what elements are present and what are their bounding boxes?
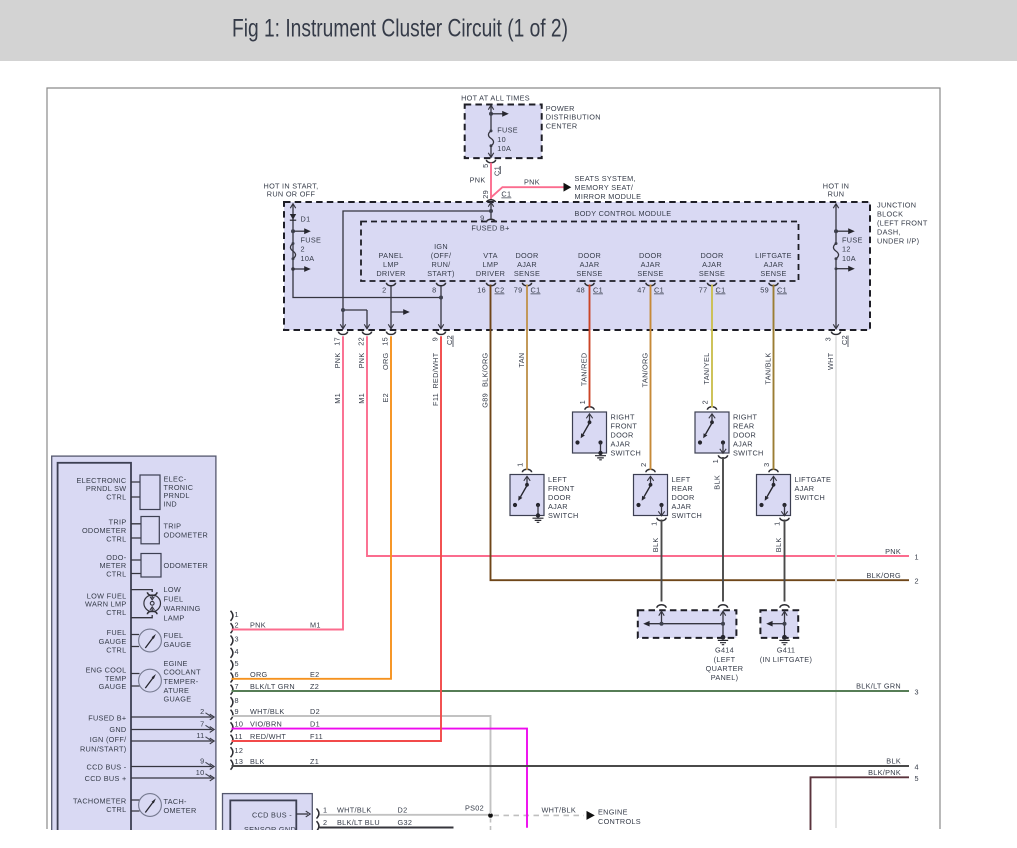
svg-text:TACHOMETER: TACHOMETER <box>73 796 127 805</box>
ccd bus outer box <box>223 794 313 848</box>
svg-text:1: 1 <box>711 459 720 463</box>
svg-text:LEFT: LEFT <box>548 475 567 484</box>
wire TAN : BCM pin79 to left front door switch <box>526 285 528 471</box>
svg-text:FRONT: FRONT <box>548 484 575 493</box>
svg-text:BLK/LT BLU: BLK/LT BLU <box>337 818 380 827</box>
svg-text:PNK: PNK <box>470 175 486 184</box>
left front door ajar switch <box>510 463 579 523</box>
svg-text:FUSE: FUSE <box>842 236 863 245</box>
svg-text:12: 12 <box>842 245 851 254</box>
svg-text:SWITCH: SWITCH <box>795 493 826 502</box>
svg-text:D1: D1 <box>310 720 320 729</box>
header bar <box>0 0 1017 61</box>
svg-text:2: 2 <box>200 707 204 716</box>
ccd bus - pin 9 arrow <box>131 766 213 768</box>
svg-text:LEFT: LEFT <box>672 475 691 484</box>
svg-text:PNK: PNK <box>524 178 540 187</box>
svg-text:TAN: TAN <box>517 353 526 368</box>
svg-text:2: 2 <box>701 400 710 404</box>
svg-text:WHT/BLK: WHT/BLK <box>337 806 372 815</box>
fused B+ pin 2 arrow <box>131 716 213 718</box>
svg-text:BLK: BLK <box>774 538 783 553</box>
svg-text:1: 1 <box>650 522 659 526</box>
wire BLK Z1 : cluster pin 13 to right edge 4 <box>232 765 910 767</box>
svg-text:13: 13 <box>235 757 244 766</box>
svg-text:10: 10 <box>196 768 205 777</box>
svg-text:BLK: BLK <box>651 538 660 553</box>
engine coolant temperature gauge <box>131 674 140 687</box>
svg-text:WHT/BLK: WHT/BLK <box>542 805 577 814</box>
svg-text:AJAR: AJAR <box>702 260 722 269</box>
svg-text:(LEFT: (LEFT <box>714 655 736 664</box>
left rear door ajar switch <box>634 463 703 553</box>
arrow to connector <box>296 813 308 815</box>
branch arrow right <box>491 113 503 115</box>
svg-text:DOOR: DOOR <box>578 251 601 260</box>
svg-text:RUN: RUN <box>828 190 845 199</box>
svg-text:FUEL: FUEL <box>107 628 127 637</box>
svg-text:11: 11 <box>196 731 204 740</box>
svg-text:1: 1 <box>323 806 327 815</box>
wire BLK right rear switch to G414 <box>722 457 724 602</box>
BCM bottom exit cups <box>338 332 347 335</box>
svg-text:12: 12 <box>235 746 244 755</box>
svg-text:AJAR: AJAR <box>795 484 815 493</box>
svg-text:SENSE: SENSE <box>514 269 540 278</box>
arrow up <box>488 105 493 110</box>
svg-text:REAR: REAR <box>672 484 693 493</box>
svg-text:RIGHT: RIGHT <box>733 413 757 422</box>
wire TAN/BLK : BCM pin59 to liftgate switch <box>773 285 775 471</box>
svg-text:IGN: IGN <box>434 242 448 251</box>
svg-text:2: 2 <box>301 245 305 254</box>
svg-text:1: 1 <box>578 400 587 404</box>
junction node <box>291 229 295 233</box>
svg-text:G414: G414 <box>715 646 734 655</box>
PNK wire from PDC to BCM <box>470 163 642 203</box>
svg-text:BODY CONTROL MODULE: BODY CONTROL MODULE <box>575 209 672 218</box>
svg-text:BLK/ORG: BLK/ORG <box>480 352 489 387</box>
svg-text:RIGHT: RIGHT <box>611 413 635 422</box>
svg-text:3: 3 <box>762 463 771 467</box>
svg-text:10A: 10A <box>497 144 511 153</box>
svg-text:FRONT: FRONT <box>611 422 638 431</box>
svg-text:FUEL: FUEL <box>164 631 184 640</box>
arrow to engine controls <box>587 811 595 820</box>
svg-text:CTRL: CTRL <box>106 492 126 501</box>
ground <box>595 456 606 460</box>
svg-text:5: 5 <box>235 659 239 668</box>
svg-text:16: 16 <box>477 286 486 295</box>
dashed continuation wires <box>494 814 585 816</box>
wire BLK/ORG G89 : BCM pin16 to right edge 2 <box>491 285 910 581</box>
svg-text:E2: E2 <box>381 393 390 403</box>
svg-text:BLOCK: BLOCK <box>877 210 903 219</box>
wire below fuse with down arrow <box>490 146 492 157</box>
svg-text:1: 1 <box>773 522 782 526</box>
svg-text:DOOR: DOOR <box>672 493 695 502</box>
svg-text:2: 2 <box>639 463 648 467</box>
svg-text:8: 8 <box>235 696 239 705</box>
right rear door ajar switch <box>695 400 764 490</box>
svg-text:F11: F11 <box>310 732 323 741</box>
connector cup pin 3 at BCM bottom <box>831 332 840 335</box>
svg-text:DASH,: DASH, <box>877 228 901 237</box>
ground G411 box <box>760 605 812 664</box>
svg-text:Z1: Z1 <box>310 757 319 766</box>
pin 8 wire to exit 9 <box>440 285 442 329</box>
svg-text:SWITCH: SWITCH <box>611 449 642 458</box>
trip odometer box <box>131 524 141 538</box>
svg-text:RUN/START): RUN/START) <box>80 744 127 753</box>
svg-text:FUEL: FUEL <box>164 594 184 603</box>
svg-text:D2: D2 <box>310 707 320 716</box>
ccd bus inner box <box>230 800 296 848</box>
svg-text:SEATS SYSTEM,: SEATS SYSTEM, <box>575 174 636 183</box>
svg-text:6: 6 <box>235 670 239 679</box>
svg-text:9: 9 <box>480 214 484 223</box>
diagram border frame <box>47 88 940 829</box>
connector pins 1-13 <box>231 611 233 770</box>
gauge tachometer <box>131 800 140 811</box>
power distribution center box <box>465 105 542 159</box>
wire BLK/LT BLU pin2 <box>320 827 454 829</box>
svg-text:M1: M1 <box>357 393 366 404</box>
svg-text:SWITCH: SWITCH <box>672 511 703 520</box>
svg-text:ODOMETER: ODOMETER <box>164 530 209 539</box>
svg-text:DRIVER: DRIVER <box>476 269 505 278</box>
svg-text:LMP: LMP <box>483 260 499 269</box>
svg-text:10A: 10A <box>842 254 856 263</box>
svg-text:AJAR: AJAR <box>548 502 568 511</box>
wire b+ vertical inside PDC <box>490 107 492 131</box>
svg-text:GND: GND <box>109 725 126 734</box>
svg-text:MIRROR MODULE: MIRROR MODULE <box>575 192 642 201</box>
svg-text:M1: M1 <box>310 621 321 630</box>
svg-text:79: 79 <box>514 286 523 295</box>
svg-text:PNK: PNK <box>333 353 342 369</box>
svg-text:C1: C1 <box>531 286 541 295</box>
svg-text:D2: D2 <box>398 806 408 815</box>
wire TAN/ORG : BCM pin47 to left rear door switch <box>650 285 652 471</box>
svg-text:PANEL): PANEL) <box>711 673 739 682</box>
arrow to seats system <box>564 183 572 192</box>
junction block fuse 12 (right side) <box>835 204 837 329</box>
connector cup at PDC bottom <box>486 160 495 163</box>
svg-text:DOOR: DOOR <box>733 431 756 440</box>
svg-text:47: 47 <box>637 286 646 295</box>
svg-text:SWITCH: SWITCH <box>548 511 579 520</box>
svg-text:G89: G89 <box>480 393 489 408</box>
wire WHT : junction block pin3 down <box>835 336 837 828</box>
svg-text:WARNING: WARNING <box>164 604 201 613</box>
ground symbol <box>721 635 726 640</box>
svg-text:Fig 1: Instrument Cluster Circ: Fig 1: Instrument Cluster Circuit (1 of … <box>232 15 568 43</box>
svg-text:FUSED B+: FUSED B+ <box>88 713 126 722</box>
svg-text:C1: C1 <box>777 286 787 295</box>
svg-text:SENSE: SENSE <box>699 269 725 278</box>
gnd pin 7 arrow <box>131 729 213 731</box>
svg-text:AJAR: AJAR <box>764 260 784 269</box>
svg-text:TAN/ORG: TAN/ORG <box>640 352 649 387</box>
svg-text:UNDER I/P): UNDER I/P) <box>877 237 919 246</box>
svg-text:START): START) <box>427 269 454 278</box>
svg-text:SENSE: SENSE <box>637 269 663 278</box>
svg-text:DISTRIBUTION: DISTRIBUTION <box>546 113 601 122</box>
electronic prndl ind box <box>131 482 140 497</box>
svg-text:JUNCTION: JUNCTION <box>877 201 916 210</box>
svg-text:EGINE: EGINE <box>164 659 188 668</box>
svg-text:10A: 10A <box>301 254 315 263</box>
svg-text:TRIP: TRIP <box>164 522 182 531</box>
instrument cluster control inner box <box>58 463 131 843</box>
odometer box <box>131 560 141 574</box>
svg-text:TAN/YEL: TAN/YEL <box>702 353 711 385</box>
svg-text:1: 1 <box>915 553 919 562</box>
junction node <box>489 112 493 116</box>
svg-text:LOW: LOW <box>164 585 182 594</box>
svg-text:RUN OR OFF: RUN OR OFF <box>267 190 316 199</box>
svg-text:TAN/BLK: TAN/BLK <box>763 353 772 385</box>
svg-text:GAUGE: GAUGE <box>164 640 192 649</box>
svg-text:WHT/BLK: WHT/BLK <box>250 707 285 716</box>
svg-text:C1: C1 <box>501 190 511 199</box>
svg-text:5: 5 <box>915 774 919 783</box>
ground <box>533 518 544 522</box>
svg-text:HOT AT ALL TIMES: HOT AT ALL TIMES <box>461 94 530 103</box>
wire PNK 22 M1 : BCM pin22 to right edge 1 <box>367 336 909 556</box>
svg-text:CTRL: CTRL <box>106 646 126 655</box>
svg-text:BLK/ORG: BLK/ORG <box>866 571 901 580</box>
svg-text:4: 4 <box>915 763 919 772</box>
svg-text:CONTROLS: CONTROLS <box>598 817 641 826</box>
svg-text:10: 10 <box>235 720 244 729</box>
svg-text:QUARTER: QUARTER <box>706 664 744 673</box>
svg-text:4: 4 <box>235 647 239 656</box>
svg-text:(LEFT FRONT: (LEFT FRONT <box>877 219 928 228</box>
svg-text:GUAGE: GUAGE <box>164 695 192 704</box>
svg-text:2: 2 <box>235 621 239 630</box>
liftgate ajar switch <box>757 463 832 553</box>
diode D1 symbol <box>290 214 296 220</box>
svg-text:2: 2 <box>323 818 327 827</box>
svg-text:TACH-: TACH- <box>164 797 188 806</box>
ccd bus + pin 10 arrow <box>131 777 213 779</box>
svg-text:PNK: PNK <box>357 353 366 369</box>
fuse 2 <box>292 242 295 245</box>
svg-text:9: 9 <box>431 337 440 341</box>
body control module box <box>284 202 870 330</box>
svg-text:TAN/RED: TAN/RED <box>579 353 588 387</box>
branch arrow right below fuse <box>291 267 295 271</box>
svg-text:LMP: LMP <box>383 260 399 269</box>
right front door ajar switch <box>573 400 642 460</box>
svg-text:ENGINE: ENGINE <box>598 807 628 816</box>
svg-text:RUN/: RUN/ <box>431 260 451 269</box>
wire TAN/YEL : BCM pin77 to right rear door switch <box>711 285 713 408</box>
svg-text:(IN LIFTGATE): (IN LIFTGATE) <box>760 655 812 664</box>
svg-text:7: 7 <box>235 682 239 691</box>
svg-text:C2: C2 <box>495 286 505 295</box>
svg-text:DOOR: DOOR <box>700 251 723 260</box>
svg-text:10: 10 <box>497 135 506 144</box>
svg-text:BLK: BLK <box>886 757 901 766</box>
svg-text:17: 17 <box>333 337 342 346</box>
svg-text:AJAR: AJAR <box>580 260 600 269</box>
wire RED/WHT F11 : BCM pin9 to cluster pin 11 <box>232 336 442 741</box>
svg-text:22: 22 <box>357 337 366 346</box>
instrument cluster outer box <box>52 456 216 836</box>
svg-text:AJAR: AJAR <box>672 502 692 511</box>
svg-text:1: 1 <box>235 610 239 619</box>
svg-text:11: 11 <box>235 732 243 741</box>
svg-text:5: 5 <box>481 164 490 168</box>
svg-text:BLK: BLK <box>250 757 265 766</box>
svg-text:LAMP: LAMP <box>164 613 185 622</box>
wire WHT/BLK pin1 <box>320 814 491 816</box>
svg-text:ORG: ORG <box>250 670 268 679</box>
wire PNK vertical <box>490 163 492 200</box>
svg-text:1: 1 <box>516 463 525 467</box>
svg-text:DOOR: DOOR <box>548 493 571 502</box>
svg-text:LIFTGATE: LIFTGATE <box>755 251 792 260</box>
svg-text:D1: D1 <box>301 215 311 224</box>
svg-text:SENSE: SENSE <box>576 269 602 278</box>
svg-text:2: 2 <box>382 286 386 295</box>
svg-text:8: 8 <box>432 286 436 295</box>
svg-text:3: 3 <box>915 688 919 697</box>
svg-text:C1: C1 <box>654 286 664 295</box>
svg-text:MEMORY SEAT/: MEMORY SEAT/ <box>575 183 634 192</box>
svg-text:SWITCH: SWITCH <box>733 449 764 458</box>
wire VIO/BRN D1 : cluster pin 10 down <box>232 729 528 828</box>
branch arrow right <box>293 230 305 232</box>
fuse 10 <box>490 129 493 132</box>
svg-text:2: 2 <box>915 577 919 586</box>
svg-text:CTRL: CTRL <box>106 570 126 579</box>
svg-text:GAUGE: GAUGE <box>99 637 127 646</box>
svg-text:BLK/LT GRN: BLK/LT GRN <box>856 682 901 691</box>
svg-text:PNK: PNK <box>250 621 266 630</box>
ign pin 11 arrow <box>131 740 213 742</box>
svg-text:59: 59 <box>760 286 769 295</box>
svg-text:C1: C1 <box>716 286 726 295</box>
wire PNK branch to seats <box>491 187 564 197</box>
svg-text:GAUGE: GAUGE <box>99 682 127 691</box>
wire BLK/PNK : from bottom to right edge 5 <box>811 777 910 830</box>
wire BLK/LT GRN Z2 : cluster pin 7 to right edge 3 <box>232 690 910 692</box>
svg-text:29: 29 <box>481 190 490 199</box>
svg-text:AJAR: AJAR <box>611 440 631 449</box>
inner box pin cups <box>386 283 395 286</box>
svg-text:CENTER: CENTER <box>546 121 578 130</box>
fused B+ inner box <box>361 222 799 282</box>
svg-text:E2: E2 <box>310 670 320 679</box>
svg-text:ORG: ORG <box>381 352 390 370</box>
svg-text:REAR: REAR <box>733 422 754 431</box>
svg-text:WHT: WHT <box>826 352 835 370</box>
svg-text:PS02: PS02 <box>465 803 484 812</box>
svg-text:M1: M1 <box>333 393 342 404</box>
svg-text:COOLANT: COOLANT <box>164 668 202 677</box>
svg-text:IND: IND <box>164 500 177 509</box>
svg-text:C1: C1 <box>593 286 603 295</box>
fuel gauge <box>131 635 139 647</box>
svg-text:FUSE: FUSE <box>497 126 518 135</box>
wire WHT/BLK D2 : cluster pin 9 to splice PS02 <box>232 716 491 814</box>
svg-text:CTRL: CTRL <box>106 534 126 543</box>
svg-text:RED/WHT: RED/WHT <box>250 732 286 741</box>
svg-text:15: 15 <box>381 337 390 346</box>
svg-text:PNK: PNK <box>885 547 901 556</box>
svg-text:CTRL: CTRL <box>106 608 126 617</box>
ccd connector pins <box>317 809 319 832</box>
svg-text:9: 9 <box>200 756 204 765</box>
svg-text:7: 7 <box>200 719 204 728</box>
svg-text:FUSE: FUSE <box>301 236 322 245</box>
svg-text:BLK/PNK: BLK/PNK <box>868 768 901 777</box>
svg-text:48: 48 <box>576 286 585 295</box>
svg-text:AJAR: AJAR <box>733 440 753 449</box>
connector cup at BCM top <box>486 200 495 203</box>
svg-text:DOOR: DOOR <box>639 251 662 260</box>
svg-text:ATURE: ATURE <box>164 686 190 695</box>
svg-text:3: 3 <box>824 337 833 341</box>
svg-text:77: 77 <box>699 286 708 295</box>
svg-text:TEMPER-: TEMPER- <box>164 677 199 686</box>
pin 2 wire to exit 15 <box>391 285 404 329</box>
svg-text:PANEL: PANEL <box>379 251 404 260</box>
internal bus with left arrow <box>648 623 723 625</box>
svg-text:BLK/LT GRN: BLK/LT GRN <box>250 682 295 691</box>
svg-text:G411: G411 <box>777 646 796 655</box>
svg-text:IGN (OFF/: IGN (OFF/ <box>90 735 127 744</box>
svg-text:DRIVER: DRIVER <box>376 269 405 278</box>
svg-text:FUSED B+: FUSED B+ <box>471 224 509 233</box>
svg-text:SENSE: SENSE <box>760 269 786 278</box>
diode D1 branch <box>293 204 441 298</box>
svg-text:CCD BUS -: CCD BUS - <box>87 762 127 771</box>
svg-text:ODOMETER: ODOMETER <box>164 561 209 570</box>
svg-text:CCD BUS +: CCD BUS + <box>85 774 127 783</box>
svg-text:(OFF/: (OFF/ <box>431 251 452 260</box>
wire BLK liftgate switch to G411 <box>784 520 786 602</box>
wire ORG E2 : BCM pin15 to cluster pin 6 <box>232 336 392 679</box>
svg-text:AJAR: AJAR <box>641 260 661 269</box>
svg-text:VIO/BRN: VIO/BRN <box>250 720 282 729</box>
svg-text:AJAR: AJAR <box>517 260 537 269</box>
ground G414 box <box>638 605 744 682</box>
svg-text:Z2: Z2 <box>310 682 319 691</box>
net from pin 29 inside BCM <box>343 203 491 329</box>
svg-text:G32: G32 <box>398 818 413 827</box>
wire TAN/RED : BCM pin48 to right front door switch <box>589 285 591 408</box>
wire BLK left rear switch to G414 <box>661 520 663 602</box>
svg-text:VTA: VTA <box>483 251 498 260</box>
svg-text:F11: F11 <box>431 393 440 406</box>
svg-text:DOOR: DOOR <box>611 431 634 440</box>
low fuel warning lamp <box>131 590 152 618</box>
svg-text:RED/WHT: RED/WHT <box>431 352 440 388</box>
svg-text:OMETER: OMETER <box>164 806 197 815</box>
svg-text:CCD BUS -: CCD BUS - <box>252 811 292 820</box>
svg-text:POWER: POWER <box>546 104 575 113</box>
wire PNK 17 M1 : BCM pin17 to cluster pin 2 <box>232 336 344 629</box>
svg-text:LIFTGATE: LIFTGATE <box>795 475 832 484</box>
svg-text:BLK: BLK <box>713 475 722 490</box>
svg-text:3: 3 <box>235 635 239 644</box>
svg-text:CTRL: CTRL <box>106 805 126 814</box>
